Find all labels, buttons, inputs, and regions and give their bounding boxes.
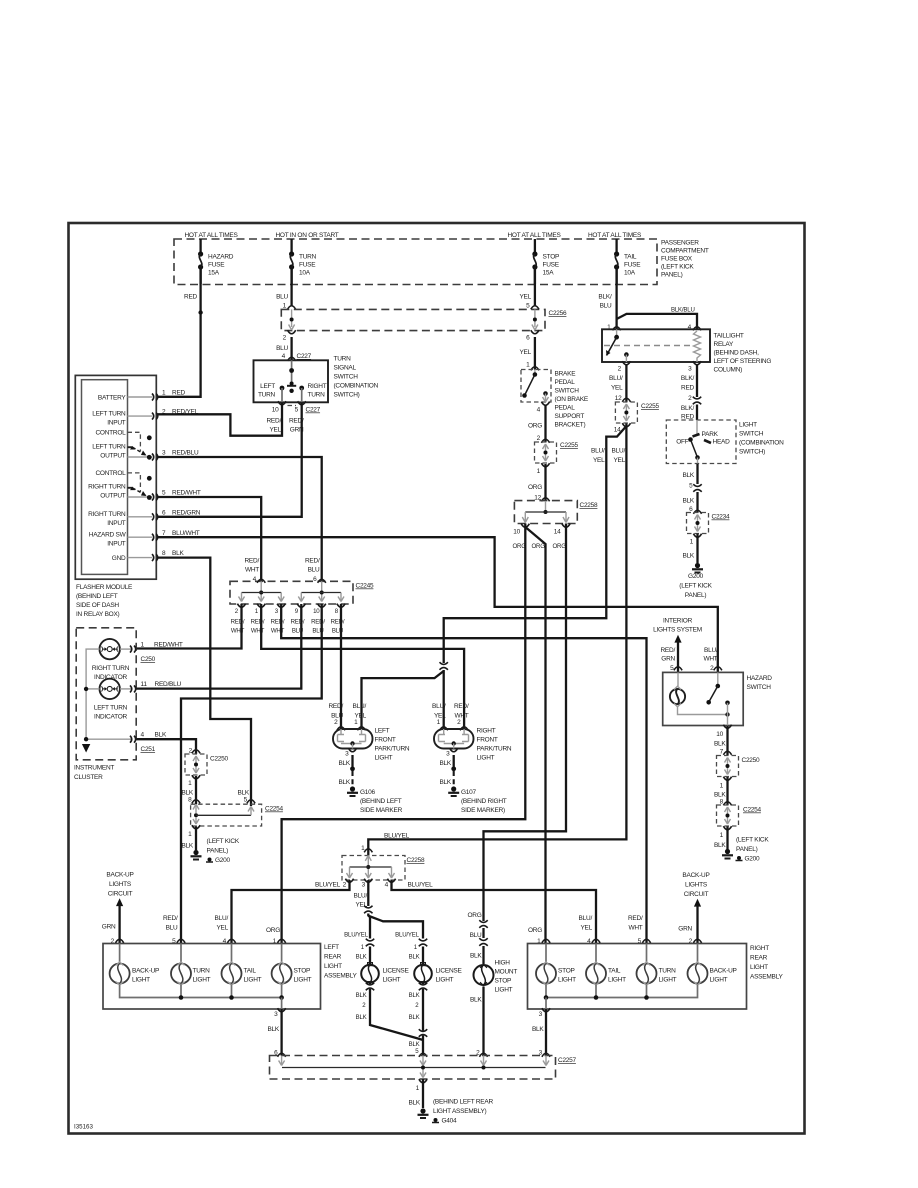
svg-text:BLU: BLU bbox=[600, 303, 612, 310]
svg-text:GRN: GRN bbox=[661, 656, 675, 663]
svg-text:SUPPORT: SUPPORT bbox=[555, 413, 585, 420]
svg-text:SWITCH): SWITCH) bbox=[334, 392, 360, 399]
svg-text:PARK: PARK bbox=[702, 431, 719, 438]
svg-text:CONTROL: CONTROL bbox=[95, 430, 126, 437]
svg-text:LIGHTS: LIGHTS bbox=[685, 882, 708, 889]
svg-text:IN RELAY BOX): IN RELAY BOX) bbox=[76, 611, 120, 618]
svg-text:LEFT TURN: LEFT TURN bbox=[92, 444, 126, 451]
high mount stop light column bbox=[467, 912, 488, 964]
svg-text:BLU/: BLU/ bbox=[432, 703, 446, 710]
label HOT AT ALL TIMES (hazard) bbox=[184, 232, 238, 239]
svg-text:BLK: BLK bbox=[356, 1014, 367, 1021]
ground G107 bbox=[448, 786, 507, 814]
svg-text:12: 12 bbox=[615, 395, 622, 402]
cluster pin 1 bbox=[120, 642, 183, 664]
svg-text:FUSE: FUSE bbox=[624, 262, 641, 269]
svg-text:TURN: TURN bbox=[299, 254, 317, 261]
svg-text:BLK: BLK bbox=[439, 779, 451, 786]
turn signal switch label bbox=[334, 356, 379, 399]
svg-text:RED/: RED/ bbox=[266, 418, 281, 425]
svg-text:GRN: GRN bbox=[678, 926, 692, 933]
svg-text:SIDE MARKER: SIDE MARKER bbox=[360, 807, 403, 814]
svg-text:TAILLIGHT: TAILLIGHT bbox=[714, 333, 744, 340]
svg-text:LIGHT: LIGHT bbox=[608, 977, 626, 984]
wire BLK hazard switch to C2250 bbox=[714, 725, 732, 756]
svg-text:GRN: GRN bbox=[102, 924, 116, 931]
wire RED/WHT C2245-1 to right front park/turn pin2 bbox=[261, 604, 464, 729]
wire ORG C2258 to right rear stop light bbox=[525, 527, 545, 944]
svg-text:OFF: OFF bbox=[676, 439, 689, 446]
right rear turn light bbox=[637, 944, 677, 986]
svg-text:BLK: BLK bbox=[470, 953, 482, 960]
svg-text:TURN: TURN bbox=[308, 392, 326, 399]
svg-text:C2258: C2258 bbox=[580, 502, 599, 509]
svg-text:RIGHT: RIGHT bbox=[750, 945, 769, 952]
svg-text:PANEL): PANEL) bbox=[661, 272, 683, 279]
svg-text:HEAD: HEAD bbox=[713, 439, 731, 446]
svg-text:FRONT: FRONT bbox=[477, 737, 498, 744]
svg-text:G200: G200 bbox=[215, 857, 231, 864]
wire BLK right front to G107 bbox=[439, 748, 457, 786]
svg-text:COLUMN): COLUMN) bbox=[714, 367, 743, 374]
svg-text:RIGHT TURN: RIGHT TURN bbox=[88, 484, 126, 491]
svg-text:SIGNAL: SIGNAL bbox=[334, 365, 357, 372]
svg-text:BLK: BLK bbox=[714, 741, 726, 748]
svg-text:BLK: BLK bbox=[408, 1100, 420, 1107]
svg-text:LIGHT: LIGHT bbox=[244, 977, 262, 984]
left license light bbox=[356, 939, 410, 1022]
wire BLU/YEL to left license light bbox=[344, 916, 370, 939]
ground G200 (left kick panel) bbox=[191, 838, 240, 864]
taillight relay box bbox=[602, 324, 710, 362]
left rear wire labels bbox=[163, 915, 280, 934]
svg-text:YEL: YEL bbox=[611, 385, 623, 392]
svg-text:RED/WHT: RED/WHT bbox=[172, 490, 201, 497]
C2256 stop-side internal bbox=[532, 309, 538, 330]
svg-text:C227: C227 bbox=[297, 353, 312, 360]
svg-text:BACK-UP: BACK-UP bbox=[710, 968, 737, 975]
svg-text:OUTPUT: OUTPUT bbox=[100, 493, 126, 500]
svg-text:TURN: TURN bbox=[659, 968, 677, 975]
svg-text:BLU/YEL: BLU/YEL bbox=[395, 932, 419, 939]
svg-text:INDICATOR: INDICATOR bbox=[94, 674, 127, 681]
svg-text:YEL: YEL bbox=[613, 457, 625, 464]
svg-text:YEL: YEL bbox=[269, 427, 281, 434]
svg-text:LIGHT: LIGHT bbox=[739, 422, 757, 429]
taillight relay internal bbox=[604, 329, 701, 362]
wire BLK left license joins right bbox=[370, 1022, 428, 1055]
svg-text:HOT AT ALL TIMES: HOT AT ALL TIMES bbox=[184, 232, 238, 239]
svg-text:G404: G404 bbox=[442, 1118, 458, 1125]
svg-text:LEFT: LEFT bbox=[324, 944, 339, 951]
wire YEL stop fuse to C2256 bbox=[519, 267, 539, 310]
svg-text:C2250: C2250 bbox=[742, 757, 761, 764]
svg-text:HAZARD: HAZARD bbox=[747, 675, 773, 682]
svg-text:(BEHIND RIGHT: (BEHIND RIGHT bbox=[461, 798, 507, 805]
svg-text:C2234: C2234 bbox=[712, 514, 731, 521]
C2258 output pins 10 and 14 bbox=[513, 524, 570, 536]
C2245 pin6 top bbox=[305, 558, 326, 584]
svg-text:ORG: ORG bbox=[467, 912, 481, 919]
svg-text:TURN: TURN bbox=[193, 968, 211, 975]
wire BLK right rear to C2257 pin3 bbox=[532, 1008, 550, 1056]
wire RED/WHT C2245-3 to right rear turn light bbox=[281, 604, 646, 944]
svg-text:C227: C227 bbox=[306, 407, 321, 414]
svg-text:BLK: BLK bbox=[181, 843, 193, 850]
svg-text:BLU: BLU bbox=[166, 925, 178, 932]
left rear pin labels bbox=[111, 938, 286, 945]
svg-text:BLK: BLK bbox=[409, 992, 420, 999]
svg-text:(ON BRAKE: (ON BRAKE bbox=[555, 396, 589, 403]
svg-text:LIGHT: LIGHT bbox=[558, 977, 576, 984]
cluster pin 11 bbox=[120, 681, 182, 692]
svg-text:RED/: RED/ bbox=[305, 558, 320, 565]
svg-text:YEL: YEL bbox=[580, 925, 592, 932]
label RED/GRN bbox=[289, 418, 304, 434]
wire BLK C2234 to G200 bbox=[682, 534, 701, 564]
svg-text:14: 14 bbox=[554, 529, 561, 536]
wire BLK left rear to C2257 pin6 bbox=[267, 1008, 285, 1056]
svg-text:RIGHT TURN: RIGHT TURN bbox=[92, 665, 130, 672]
svg-text:LICENSE: LICENSE bbox=[436, 968, 463, 975]
right rear light assembly box bbox=[528, 944, 784, 1010]
hazard switch pin 2 bbox=[703, 647, 721, 672]
wire ORG brake switch to C2255 bbox=[528, 402, 550, 443]
wire BLU/YEL relay pin2 to C2255 bbox=[609, 361, 630, 402]
svg-text:C2258: C2258 bbox=[407, 857, 426, 864]
svg-text:BLK: BLK bbox=[338, 779, 350, 786]
svg-text:PARK/TURN: PARK/TURN bbox=[375, 746, 410, 753]
svg-text:WHT: WHT bbox=[628, 925, 642, 932]
taillight relay label bbox=[714, 333, 772, 374]
wire BLK C2254 to G200 right bbox=[714, 826, 732, 849]
svg-text:LIGHTS: LIGHTS bbox=[109, 881, 132, 888]
svg-text:BLK: BLK bbox=[682, 498, 694, 505]
svg-text:BLK: BLK bbox=[714, 792, 726, 799]
svg-text:SWITCH: SWITCH bbox=[747, 684, 772, 691]
svg-text:C2255: C2255 bbox=[560, 442, 579, 449]
svg-text:COMPARTMENT: COMPARTMENT bbox=[661, 248, 709, 255]
svg-text:BATTERY: BATTERY bbox=[98, 395, 127, 402]
left rear tail light bbox=[222, 944, 262, 986]
connector C2258 (stop circuit) bbox=[514, 501, 598, 524]
left rear back-up light bbox=[110, 944, 160, 986]
C2245 bottom pins bbox=[235, 604, 345, 615]
svg-text:HOT AT ALL TIMES: HOT AT ALL TIMES bbox=[588, 232, 642, 239]
svg-text:CIRCUIT: CIRCUIT bbox=[684, 891, 709, 898]
connector C2255 (brake side) bbox=[535, 442, 579, 463]
svg-text:BLU/: BLU/ bbox=[704, 647, 718, 654]
svg-text:LIGHT: LIGHT bbox=[659, 977, 677, 984]
wire BLU/YEL C2258-4 to right rear tail light bbox=[392, 880, 597, 944]
svg-text:LIGHTS SYSTEM: LIGHTS SYSTEM bbox=[653, 627, 702, 634]
ground G106 bbox=[347, 786, 403, 814]
instrument cluster box bbox=[74, 628, 136, 781]
svg-text:PASSENGER: PASSENGER bbox=[661, 240, 699, 247]
right front park/turn light bbox=[434, 719, 474, 749]
svg-text:BLK: BLK bbox=[172, 550, 184, 557]
svg-text:RED/: RED/ bbox=[271, 619, 285, 626]
svg-text:BLU/YEL: BLU/YEL bbox=[384, 833, 410, 840]
svg-text:STOP: STOP bbox=[294, 968, 311, 975]
svg-text:LEFT: LEFT bbox=[375, 728, 390, 735]
turn signal switch internal bbox=[258, 360, 327, 402]
svg-text:STOP: STOP bbox=[495, 978, 512, 985]
ground G404 bbox=[418, 1099, 494, 1125]
right turn indicator bulb bbox=[92, 639, 130, 681]
svg-text:RIGHT: RIGHT bbox=[308, 383, 327, 390]
svg-text:WHT: WHT bbox=[245, 567, 259, 574]
svg-text:BLU/: BLU/ bbox=[579, 915, 593, 922]
svg-text:ORG: ORG bbox=[532, 543, 546, 550]
high mount stop light bulb bbox=[474, 960, 518, 994]
svg-text:YEL: YEL bbox=[354, 713, 366, 720]
svg-text:LIGHT ASSEMBLY): LIGHT ASSEMBLY) bbox=[433, 1108, 487, 1115]
svg-text:RED/: RED/ bbox=[244, 558, 259, 565]
wire BLU/YEL C2255-14 split bbox=[614, 423, 631, 433]
svg-text:RED/: RED/ bbox=[251, 619, 265, 626]
svg-text:PEDAL: PEDAL bbox=[555, 405, 576, 412]
wire BLK/BLU tail fuse to relay pin1 bbox=[598, 267, 616, 329]
wire BLK flasher pin8 to C2254 pin5 bbox=[157, 558, 251, 806]
svg-text:LIGHT: LIGHT bbox=[383, 977, 401, 984]
svg-text:LIGHT: LIGHT bbox=[710, 977, 728, 984]
svg-text:LIGHT: LIGHT bbox=[477, 755, 495, 762]
svg-text:(COMBINATION: (COMBINATION bbox=[334, 383, 379, 390]
svg-text:PARK/TURN: PARK/TURN bbox=[477, 746, 512, 753]
svg-text:PANEL): PANEL) bbox=[207, 848, 229, 855]
wire RED/BLU flasher pin3 to C2245 pin6 bbox=[157, 457, 322, 581]
hazard switch internal bbox=[670, 672, 730, 725]
svg-text:SWITCH: SWITCH bbox=[555, 388, 580, 395]
hazard fuse 15A bbox=[198, 239, 234, 284]
svg-text:MOUNT: MOUNT bbox=[495, 969, 518, 976]
svg-text:LIGHT: LIGHT bbox=[132, 977, 150, 984]
flasher right-turn relay contact bbox=[128, 473, 152, 500]
wire BLU/YEL C2258-3 to license lights bbox=[354, 880, 374, 917]
passenger compartment fuse box bbox=[174, 239, 657, 285]
svg-text:ORG: ORG bbox=[553, 543, 567, 550]
wire BLK C2254 to G200 left bbox=[181, 825, 200, 850]
svg-text:BLU: BLU bbox=[331, 713, 343, 720]
svg-text:RED/: RED/ bbox=[231, 619, 245, 626]
svg-text:RED/: RED/ bbox=[628, 915, 643, 922]
svg-text:LIGHT: LIGHT bbox=[375, 755, 393, 762]
svg-text:BLK/: BLK/ bbox=[681, 375, 695, 382]
wire BLK/RED relay pin3 to inline connector bbox=[681, 361, 702, 404]
svg-text:G107: G107 bbox=[461, 789, 477, 796]
svg-text:RED: RED bbox=[184, 294, 198, 301]
right license light bbox=[409, 939, 463, 1056]
wire ORG C2258-14 to high mount stop light bbox=[484, 524, 567, 922]
svg-text:(BEHIND LEFT: (BEHIND LEFT bbox=[360, 798, 402, 805]
svg-text:REAR: REAR bbox=[324, 954, 342, 961]
wire BLK light switch to C2234 bbox=[682, 464, 702, 514]
right front park/turn labels bbox=[432, 703, 512, 762]
ground G200 (hazard side) bbox=[722, 837, 769, 863]
wire BLU/YEL to left front park light pin1 bbox=[362, 671, 444, 729]
svg-text:BACK-UP: BACK-UP bbox=[132, 968, 159, 975]
svg-text:RED/GRN: RED/GRN bbox=[172, 510, 201, 517]
svg-text:INSTRUMENT: INSTRUMENT bbox=[74, 765, 114, 772]
right rear tail light bbox=[586, 944, 626, 986]
right rear stop light bbox=[536, 944, 576, 986]
wire YEL C2256 to brake pedal switch bbox=[519, 330, 539, 370]
wire BLK/RED to light switch bbox=[681, 405, 697, 421]
wire BLK/BLU branch to relay pin4 bbox=[617, 307, 697, 330]
connector C2257 bbox=[270, 1050, 577, 1080]
svg-text:PANEL): PANEL) bbox=[736, 846, 758, 853]
svg-text:BLU/YEL: BLU/YEL bbox=[344, 932, 368, 939]
svg-text:STOP: STOP bbox=[543, 254, 560, 261]
svg-text:TAIL: TAIL bbox=[624, 254, 637, 261]
flasher pin stubs bbox=[128, 394, 158, 562]
svg-text:WHT: WHT bbox=[703, 656, 717, 663]
turn fuse 10A bbox=[289, 239, 317, 284]
svg-text:BLK: BLK bbox=[532, 1026, 544, 1033]
right rear wire labels bbox=[528, 915, 643, 934]
inline connector on BLU/YEL front park feed bbox=[439, 662, 449, 670]
connector C2254 (hazard side) bbox=[717, 805, 762, 826]
border frame bbox=[69, 223, 805, 1134]
svg-text:10: 10 bbox=[716, 731, 723, 738]
wire BLK C2257 to G404 bbox=[408, 1079, 427, 1108]
svg-text:RED/: RED/ bbox=[163, 915, 178, 922]
svg-text:HOT IN ON OR START: HOT IN ON OR START bbox=[275, 232, 338, 239]
svg-text:I35163: I35163 bbox=[74, 1124, 93, 1131]
svg-text:YEL: YEL bbox=[519, 349, 531, 356]
C227 bottom connector bbox=[272, 401, 321, 413]
svg-text:YEL: YEL bbox=[216, 925, 228, 932]
svg-text:INPUT: INPUT bbox=[107, 520, 126, 527]
svg-text:LIGHT: LIGHT bbox=[193, 977, 211, 984]
connector C2245 box bbox=[230, 581, 374, 604]
light switch box bbox=[666, 420, 736, 464]
svg-text:RED: RED bbox=[172, 390, 186, 397]
ORG labels under C2258 bbox=[513, 543, 567, 550]
svg-text:LICENSE: LICENSE bbox=[383, 968, 410, 975]
C2258 splice bottom pins bbox=[315, 879, 433, 889]
svg-text:SIDE MARKER): SIDE MARKER) bbox=[461, 807, 505, 814]
svg-text:BLK: BLK bbox=[682, 472, 694, 479]
flasher module caption bbox=[76, 584, 133, 618]
svg-text:RELAY: RELAY bbox=[714, 341, 734, 348]
svg-text:10A: 10A bbox=[299, 270, 311, 277]
back-up lights circuit arrow right bbox=[678, 872, 709, 944]
flasher module inner box bbox=[82, 380, 128, 575]
label HOT IN ON OR START bbox=[275, 232, 338, 239]
left rear ground bus bbox=[120, 985, 284, 1010]
svg-text:C2254: C2254 bbox=[743, 807, 762, 814]
svg-text:RED/: RED/ bbox=[311, 619, 325, 626]
right rear back-up light bbox=[688, 944, 737, 986]
svg-text:TAIL: TAIL bbox=[608, 968, 621, 975]
light switch internal bbox=[676, 420, 730, 464]
svg-text:BRAKE: BRAKE bbox=[555, 371, 577, 378]
tail fuse 10A bbox=[614, 239, 641, 284]
diagram code label bbox=[74, 1124, 93, 1131]
svg-text:CONTROL: CONTROL bbox=[95, 470, 126, 477]
svg-text:G200: G200 bbox=[745, 856, 761, 863]
svg-text:LIGHT: LIGHT bbox=[324, 963, 342, 970]
wire BLU/YEL to C2258 lower pin1 bbox=[368, 424, 626, 856]
svg-text:TURN: TURN bbox=[258, 392, 276, 399]
svg-text:BLK: BLK bbox=[356, 992, 367, 999]
left rear stop light bbox=[272, 944, 312, 986]
connector C2254 (left kick panel) bbox=[191, 804, 284, 826]
svg-text:(LEFT KICK: (LEFT KICK bbox=[736, 837, 769, 844]
wire BLU/YEL branch to right license light bbox=[369, 916, 423, 939]
svg-text:BLK: BLK bbox=[181, 790, 193, 797]
svg-text:(LEFT KICK: (LEFT KICK bbox=[661, 264, 694, 271]
wire BLK high mount to C2257 bbox=[470, 987, 484, 1056]
C2245 pin4 top bbox=[244, 558, 265, 584]
cluster ground bus bbox=[82, 649, 133, 752]
wire BLK C2250 to C2254 pin8 bbox=[181, 775, 200, 804]
svg-text:BLU/: BLU/ bbox=[612, 448, 626, 455]
flasher left-turn relay contact bbox=[128, 432, 152, 459]
wire BLK C2250 to C2254 right bbox=[714, 777, 732, 806]
wire BLU turn fuse to C2256 bbox=[276, 267, 296, 310]
svg-text:ASSEMBLY: ASSEMBLY bbox=[324, 973, 357, 980]
left rear turn light bbox=[171, 944, 211, 986]
svg-text:INPUT: INPUT bbox=[107, 541, 126, 548]
svg-text:G106: G106 bbox=[360, 789, 376, 796]
svg-text:RED/: RED/ bbox=[454, 703, 469, 710]
svg-text:C2257: C2257 bbox=[558, 1057, 577, 1064]
svg-text:HAZARD SW: HAZARD SW bbox=[89, 532, 127, 539]
C2256 turn-side internal bbox=[289, 309, 295, 330]
svg-text:(BEHIND DASH,: (BEHIND DASH, bbox=[714, 350, 760, 357]
svg-text:(LEFT KICK: (LEFT KICK bbox=[679, 583, 712, 590]
BLK label at C2254 pin5 bbox=[237, 790, 255, 804]
turn signal switch box bbox=[254, 360, 329, 402]
interior lights system arrow bbox=[653, 618, 702, 673]
svg-text:SWITCH: SWITCH bbox=[334, 374, 359, 381]
label RED/YEL bbox=[266, 418, 281, 434]
flasher module outer box bbox=[75, 375, 156, 579]
brake pedal switch label bbox=[555, 371, 589, 429]
connector C2258 (tail splice) bbox=[342, 833, 425, 881]
svg-text:HAZARD: HAZARD bbox=[208, 254, 234, 261]
svg-text:CLUSTER: CLUSTER bbox=[74, 774, 103, 781]
C2245 internal buses bbox=[239, 581, 345, 601]
connector C2250 (cluster side) bbox=[185, 754, 229, 775]
svg-text:WHT: WHT bbox=[271, 628, 285, 635]
svg-text:RIGHT TURN: RIGHT TURN bbox=[88, 511, 126, 518]
svg-text:C2255: C2255 bbox=[641, 403, 660, 410]
hazard switch pin 5 bbox=[660, 647, 682, 672]
svg-text:BLU/YEL: BLU/YEL bbox=[315, 882, 341, 889]
wire RED/YEL C227-10 to flasher pin 2 bbox=[157, 402, 282, 435]
svg-text:(BEHIND LEFT: (BEHIND LEFT bbox=[76, 593, 118, 600]
svg-text:RED/: RED/ bbox=[291, 619, 305, 626]
connector C2250 (hazard side) bbox=[717, 756, 761, 777]
svg-text:RED/BLU: RED/BLU bbox=[172, 450, 199, 457]
svg-text:BLK: BLK bbox=[409, 1014, 420, 1021]
svg-text:RIGHT: RIGHT bbox=[477, 728, 496, 735]
svg-text:(COMBINATION: (COMBINATION bbox=[739, 440, 784, 447]
svg-text:BLK: BLK bbox=[409, 954, 420, 961]
svg-text:BLK: BLK bbox=[682, 553, 694, 560]
svg-text:TAIL: TAIL bbox=[244, 968, 257, 975]
svg-text:ORG: ORG bbox=[528, 927, 542, 934]
wire BLK cluster pin4 to C2250 bbox=[137, 739, 201, 754]
svg-text:TURN: TURN bbox=[334, 356, 352, 363]
right rear pin labels bbox=[537, 938, 701, 945]
svg-text:BLK: BLK bbox=[409, 1041, 420, 1048]
svg-text:CIRCUIT: CIRCUIT bbox=[108, 891, 133, 898]
